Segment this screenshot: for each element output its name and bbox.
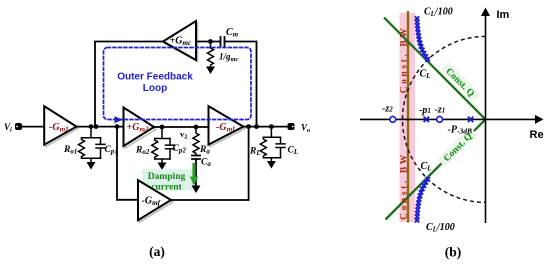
wire Vi to Gm1 xyxy=(22,126,44,128)
ground below Ca xyxy=(192,186,201,194)
arrowhead on loop (points right) xyxy=(115,116,123,123)
op-amp +Gmc (points left) xyxy=(163,21,196,60)
ground below 1/gmc xyxy=(206,67,215,75)
op-amp +Gm2 shadow xyxy=(125,109,156,148)
node Vo output terminal xyxy=(288,123,295,130)
outer feedback loop dashed box xyxy=(104,48,252,120)
const Q line upper xyxy=(384,18,486,120)
svg-text:Const. BW: Const. BW xyxy=(400,26,410,94)
resistor Ra xyxy=(193,127,199,155)
svg-text:Const. BW: Const. BW xyxy=(400,152,410,220)
resistor 1/gmc xyxy=(208,42,214,67)
ground below Ro1/Cp1 xyxy=(87,162,96,170)
svg-text:Im: Im xyxy=(497,9,510,21)
svg-text:CL/100: CL/100 xyxy=(426,222,455,234)
node junction dot at 1/gmc xyxy=(208,39,213,44)
label Damping current xyxy=(148,172,186,193)
op-amp -Gmf xyxy=(138,180,171,220)
svg-text:Cp1: Cp1 xyxy=(105,145,118,156)
node v2 junction dot xyxy=(194,125,199,130)
wire -Gmf output to output node xyxy=(171,127,249,200)
op-amp -Gmf shadow xyxy=(140,182,173,222)
capacitor Cm xyxy=(221,37,225,46)
svg-text:CL: CL xyxy=(288,146,299,157)
const BW line (vertical brown) xyxy=(407,11,409,223)
wire Gm2 output to GmL input xyxy=(154,126,209,128)
node junction dot (to -Gmf) xyxy=(246,124,251,129)
pole -p1 (blue x) xyxy=(424,117,429,122)
wire v1 down to -Gmf input xyxy=(117,127,138,200)
node junction dot (RL CL branch) xyxy=(269,124,274,129)
svg-text:Ro1: Ro1 xyxy=(63,145,77,156)
svg-text:Ca: Ca xyxy=(201,158,211,169)
damping current arrow (green) xyxy=(190,163,198,186)
node v1 junction dot (branch Ro1) xyxy=(89,124,94,129)
svg-text:Ro2: Ro2 xyxy=(135,146,150,157)
svg-text:Re: Re xyxy=(530,129,544,141)
const Q line lower xyxy=(386,119,486,219)
op-amp -GmL xyxy=(209,106,244,145)
node junction dot Gm2 output xyxy=(160,125,165,130)
resistor RL / capacitor CL parallel network xyxy=(260,127,285,161)
axis Re xyxy=(360,118,536,120)
resistor Ro1 / capacitor Cp1 parallel network xyxy=(79,127,106,162)
wire Cm to output node (right vertical) xyxy=(225,42,257,127)
svg-text:Outer Feedback: Outer Feedback xyxy=(117,71,193,82)
wire Gmc base to Cm xyxy=(196,41,221,43)
op-amp +Gm2 xyxy=(124,108,155,147)
dashed circle (left semicircle) xyxy=(403,36,486,202)
svg-text:Ra: Ra xyxy=(199,145,210,156)
svg-text:-P-3dB: -P-3dB xyxy=(448,124,472,135)
resistor Ro2 / capacitor Cp2 parallel network xyxy=(152,127,175,163)
label Const. BW (lower) xyxy=(400,152,410,220)
label Damping current background xyxy=(142,169,193,191)
label Const. Q (upper) xyxy=(440,62,481,103)
axis Im xyxy=(485,15,487,223)
svg-text:RL: RL xyxy=(249,147,261,158)
capacitor Ca xyxy=(192,156,200,186)
wire v1 up to +Gmc input xyxy=(95,42,163,127)
wire Gm1 output to Gm2 input xyxy=(77,126,124,128)
op-amp -Gm1 shadow xyxy=(46,108,78,147)
op-amp +Gmc shadow xyxy=(165,23,198,62)
pole -P-3dB (blue x) xyxy=(468,117,473,122)
node v1 junction dot (wire to +Gmc) xyxy=(94,124,99,129)
svg-text:Cp2: Cp2 xyxy=(173,144,187,155)
svg-text:Loop: Loop xyxy=(143,83,167,94)
svg-text:CL/100: CL/100 xyxy=(424,7,453,19)
node junction dot (wire to -Gmf) xyxy=(115,124,120,129)
wire GmL output to Vo xyxy=(243,126,287,128)
ground below Ro2/Cp2 xyxy=(158,163,167,171)
zero -z1 (blue circle) xyxy=(437,117,443,123)
node Vi input terminal xyxy=(15,123,22,130)
op-amp -GmL shadow xyxy=(210,108,245,146)
const BW highlight band xyxy=(400,13,416,222)
node junction dot (to Cm branch) xyxy=(254,124,259,129)
label Const. Q (lower) xyxy=(437,127,478,168)
svg-text:(a): (a) xyxy=(149,244,165,259)
pole locus lower (blue x chain) xyxy=(415,177,430,222)
label Const. BW (upper) xyxy=(400,26,410,94)
pole locus upper (blue x chain) xyxy=(415,16,430,61)
ground below RL/CL xyxy=(267,161,276,169)
zero -z2 (blue circle) xyxy=(390,117,396,123)
svg-text:-z2: -z2 xyxy=(382,104,393,115)
svg-text:-p1: -p1 xyxy=(419,105,431,116)
svg-text:(b): (b) xyxy=(445,245,462,260)
svg-text:-z1: -z1 xyxy=(435,105,446,116)
op-amp -Gm1 xyxy=(44,106,76,145)
svg-text:Damping: Damping xyxy=(148,172,186,182)
